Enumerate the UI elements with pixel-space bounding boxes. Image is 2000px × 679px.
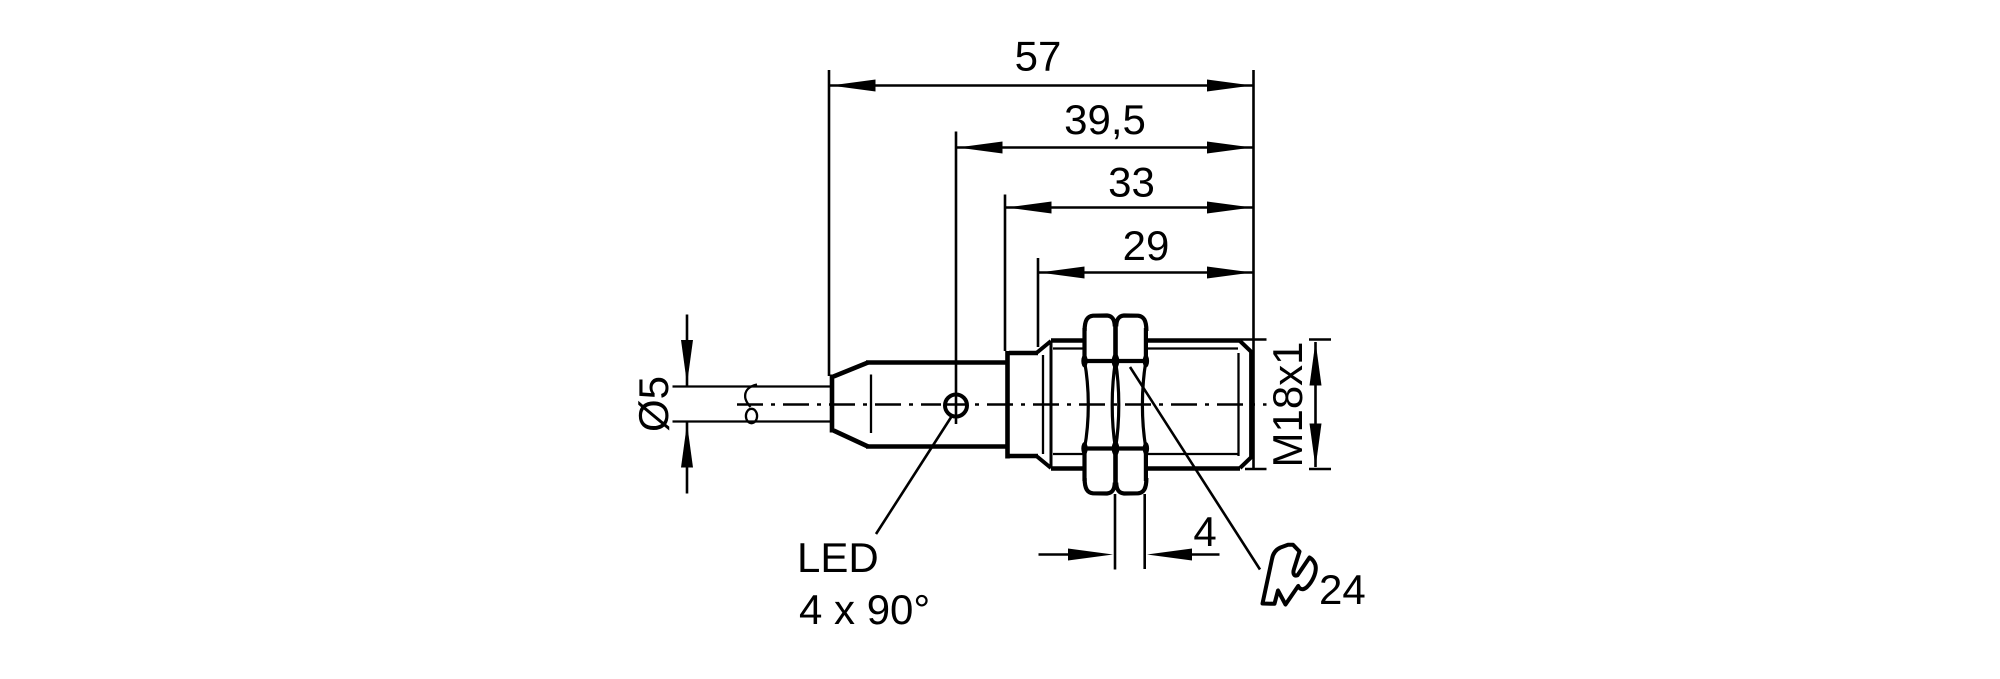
svg-text:Ø5: Ø5 bbox=[630, 376, 677, 432]
svg-text:29: 29 bbox=[1123, 222, 1170, 269]
svg-text:39,5: 39,5 bbox=[1064, 96, 1146, 143]
svg-text:24: 24 bbox=[1319, 566, 1366, 613]
svg-text:4 x 90°: 4 x 90° bbox=[799, 586, 930, 633]
svg-text:4: 4 bbox=[1193, 508, 1216, 555]
svg-text:LED: LED bbox=[797, 534, 879, 581]
svg-text:57: 57 bbox=[1015, 33, 1062, 80]
svg-text:M18x1: M18x1 bbox=[1264, 341, 1311, 467]
svg-text:33: 33 bbox=[1108, 159, 1155, 206]
